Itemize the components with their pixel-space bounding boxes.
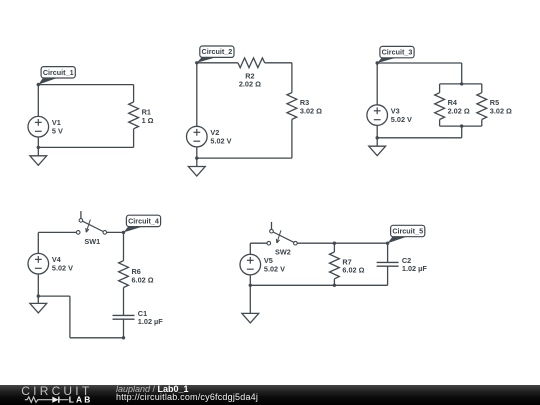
wire [123, 319, 125, 338]
wire [123, 288, 125, 316]
wire [333, 243, 335, 252]
node label Circuit_5 [388, 225, 425, 243]
svg-text:2.02 Ω: 2.02 Ω [448, 106, 470, 115]
wire [461, 126, 463, 138]
svg-text:1.02 µF: 1.02 µF [402, 264, 427, 273]
resistor R5 [477, 93, 512, 120]
wire [250, 284, 387, 286]
wire [38, 295, 70, 297]
resistor R4 [435, 93, 470, 120]
svg-text:Circuit_3: Circuit_3 [382, 48, 413, 57]
footer project text [116, 386, 258, 401]
voltage source V2 [187, 126, 232, 147]
voltage source V3 [367, 105, 412, 126]
ground [369, 138, 386, 156]
wire [133, 129, 135, 148]
junction [460, 124, 463, 127]
node label Circuit_1 [38, 67, 75, 85]
wire [249, 275, 251, 285]
wire [123, 232, 125, 260]
node [386, 242, 389, 245]
wire [481, 84, 483, 93]
wire [439, 84, 441, 93]
CircuitLab logo mark [21, 384, 92, 404]
svg-text:SW1: SW1 [84, 237, 100, 246]
svg-text:5.02 V: 5.02 V [391, 115, 412, 124]
svg-text:1.02 µF: 1.02 µF [138, 317, 163, 326]
voltage source V1 [28, 116, 63, 137]
junction [333, 284, 336, 287]
wire [291, 63, 293, 93]
node [376, 136, 379, 139]
svg-text:SW2: SW2 [275, 248, 291, 257]
node [122, 231, 125, 234]
wire [439, 120, 441, 127]
ground [30, 296, 47, 313]
node label Circuit_2 [197, 46, 234, 63]
wire [481, 120, 483, 127]
resistor R2 [238, 58, 265, 89]
wire [196, 63, 198, 127]
wire [37, 232, 39, 253]
capacitor C1 [113, 309, 164, 326]
svg-text:5.02 V: 5.02 V [52, 264, 73, 273]
svg-text:LAB: LAB [69, 394, 93, 404]
node [122, 336, 125, 339]
wire [461, 63, 463, 84]
svg-text:3.02 Ω: 3.02 Ω [490, 106, 512, 115]
wire [37, 85, 39, 117]
footer bar [0, 385, 540, 405]
wire [70, 337, 124, 339]
ground [242, 285, 259, 323]
node [195, 61, 198, 64]
wire [250, 242, 267, 244]
voltage source V4 [28, 253, 73, 274]
wire [107, 231, 124, 233]
svg-text:6.02 Ω: 6.02 Ω [342, 266, 364, 275]
wire [69, 296, 71, 338]
svg-text:Circuit_5: Circuit_5 [392, 227, 423, 236]
wire [333, 279, 335, 286]
wire [196, 147, 198, 158]
junction [333, 242, 336, 245]
wire [387, 243, 389, 262]
svg-text:Circuit_2: Circuit_2 [202, 47, 233, 56]
svg-text:Circuit_4: Circuit_4 [128, 216, 159, 225]
voltage source V5 [240, 254, 285, 275]
wire [38, 146, 133, 148]
wire [291, 119, 293, 158]
wire [377, 62, 462, 64]
svg-text:5 V: 5 V [52, 127, 63, 136]
wire [440, 125, 482, 127]
ground [30, 147, 47, 165]
wire [197, 62, 238, 64]
resistor R3 [287, 93, 322, 120]
wire [133, 85, 135, 102]
wire [38, 84, 133, 86]
wire [440, 83, 482, 85]
resistor R1 [129, 102, 154, 129]
svg-text:6.02 Ω: 6.02 Ω [132, 275, 154, 284]
svg-text:3.02 Ω: 3.02 Ω [300, 106, 322, 115]
svg-text:Circuit_1: Circuit_1 [43, 68, 74, 77]
svg-text:5.02 V: 5.02 V [210, 136, 231, 145]
node [37, 83, 40, 86]
wire [249, 243, 251, 254]
capacitor C2 [377, 256, 428, 273]
svg-text:2.02 Ω: 2.02 Ω [239, 80, 261, 89]
switch SW1 [76, 211, 106, 246]
svg-text:5.02 V: 5.02 V [264, 264, 285, 273]
svg-text:1 Ω: 1 Ω [142, 116, 154, 125]
node label Circuit_4 [124, 215, 161, 232]
wire [297, 242, 387, 244]
wire [265, 62, 292, 64]
ground [188, 158, 205, 176]
wire [376, 63, 378, 105]
resistor R7 [330, 252, 365, 279]
wire [377, 137, 462, 139]
node [37, 146, 40, 149]
wire [387, 266, 389, 285]
wire [37, 274, 39, 296]
wire [197, 157, 292, 159]
node [376, 61, 379, 64]
resistor R6 [119, 261, 154, 288]
wire [37, 137, 39, 147]
wire [38, 231, 76, 233]
node [195, 156, 198, 159]
node [37, 294, 40, 297]
switch SW2 [267, 222, 297, 257]
wire [376, 125, 378, 137]
node label Circuit_3 [377, 46, 414, 63]
junction [460, 82, 463, 85]
node [249, 284, 252, 287]
